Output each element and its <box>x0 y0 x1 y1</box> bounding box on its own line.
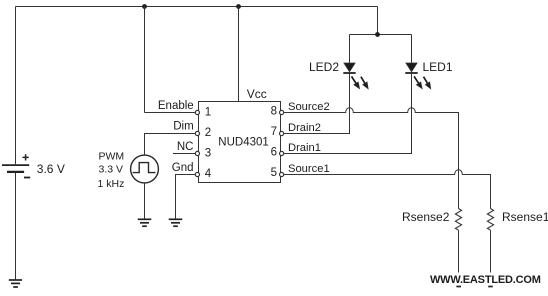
wire Rsense2 to ground <box>458 230 460 278</box>
svg-text:Enable: Enable <box>158 100 194 112</box>
wire Rsense1 to ground <box>490 230 492 278</box>
label 3.6 V <box>37 162 65 176</box>
resistor Rsense1 <box>487 209 493 231</box>
label LED2 <box>309 60 339 74</box>
label Source2 <box>288 101 330 113</box>
pin number 1 <box>205 107 211 119</box>
svg-text:NC: NC <box>177 141 194 153</box>
LED D1 <box>405 63 431 89</box>
svg-text:5: 5 <box>271 167 277 179</box>
svg-text:WWW.EASTLED.COM: WWW.EASTLED.COM <box>430 274 541 286</box>
svg-text:6: 6 <box>271 147 277 159</box>
wire vcc branch vertical <box>238 7 240 102</box>
label Gnd <box>172 162 194 174</box>
pin 3 circle <box>195 151 199 155</box>
svg-text:3.6 V: 3.6 V <box>37 162 65 176</box>
battery BT1 3.6V <box>2 154 30 177</box>
wire Gnd pin to ground <box>176 175 196 220</box>
wire battery to ground <box>15 173 17 280</box>
label Drain2 <box>288 122 321 134</box>
svg-text:1 kHz: 1 kHz <box>98 178 125 190</box>
label Drain1 <box>288 142 321 154</box>
svg-text:3.3 V: 3.3 V <box>99 164 124 176</box>
wire enable branch vertical <box>144 7 146 113</box>
pin number 6 <box>271 147 277 159</box>
pin number 5 <box>271 167 277 179</box>
pin number 7 <box>271 126 277 138</box>
svg-text:3: 3 <box>205 148 211 160</box>
svg-text:4: 4 <box>205 168 212 180</box>
wire Source1 pin5 with hop to Rsense1 <box>284 170 491 209</box>
pulse waveform symbol <box>133 163 156 173</box>
source V1 PWM circle <box>131 155 159 183</box>
pin 7 circle <box>280 131 284 135</box>
label Enable <box>158 100 194 112</box>
wire Source2 pin8 with hops to Rsense2 <box>284 108 459 209</box>
pin 2 circle <box>195 131 199 135</box>
pin 6 circle <box>280 151 284 155</box>
pin number 3 <box>205 148 211 160</box>
label Source1 <box>288 163 330 175</box>
svg-text:Source1: Source1 <box>288 163 330 175</box>
svg-text:8: 8 <box>271 106 277 118</box>
svg-text:Rsense2: Rsense2 <box>402 210 450 224</box>
label Vcc <box>247 87 267 101</box>
svg-text:NUD4301: NUD4301 <box>218 137 268 149</box>
wire enable to pin1 <box>145 112 196 114</box>
svg-text:PWM: PWM <box>99 150 125 162</box>
svg-text:Rsense1: Rsense1 <box>502 210 548 224</box>
label Rsense2 <box>402 210 450 224</box>
label Rsense1 <box>502 210 548 224</box>
wire Dim to PWM source <box>145 134 196 156</box>
wire top rail corner down to LED rail <box>377 7 379 35</box>
pin number 8 <box>271 106 277 118</box>
label NUD4301 <box>218 137 268 149</box>
LED D2 <box>343 63 368 89</box>
ground PWM <box>138 219 152 226</box>
svg-text:Source2: Source2 <box>288 101 330 113</box>
svg-text:Drain1: Drain1 <box>288 142 321 154</box>
wire PWM to ground <box>144 183 146 219</box>
svg-text:Dim: Dim <box>173 121 193 133</box>
svg-text:1: 1 <box>205 107 211 119</box>
ground Rsense1 <box>484 279 497 287</box>
svg-text:Drain2: Drain2 <box>288 122 321 134</box>
node junction dot LED rail <box>375 32 380 37</box>
label WWW.EASTLED.COM <box>428 273 544 287</box>
label PWM 3.3V 1kHz <box>98 150 125 189</box>
label LED1 <box>423 60 453 74</box>
ground battery <box>9 280 22 287</box>
svg-text:Vcc: Vcc <box>247 87 267 101</box>
pin number 2 <box>205 127 211 139</box>
op IC U1 NUD4301 body <box>199 102 281 183</box>
wire LED anode rail <box>350 34 412 36</box>
pin number 4 <box>205 168 212 180</box>
wire left battery feed <box>15 7 17 165</box>
svg-text:Gnd: Gnd <box>172 162 194 174</box>
svg-text:LED2: LED2 <box>309 60 339 74</box>
svg-text:7: 7 <box>271 126 277 138</box>
label NC <box>177 141 194 153</box>
ground Rsense2 <box>452 279 465 287</box>
node junction dot vcc branch <box>236 4 241 9</box>
wire LED2 cathode to Drain2 <box>284 73 350 134</box>
label Dim <box>173 121 193 133</box>
svg-text:LED1: LED1 <box>423 60 453 74</box>
pin 1 circle <box>195 110 199 114</box>
wire NC stub <box>173 153 195 155</box>
pin 8 circle <box>280 110 284 114</box>
wire top supply rail <box>16 6 378 8</box>
wire LED1 anode <box>411 35 413 64</box>
node junction dot enable branch <box>142 4 147 9</box>
svg-text:2: 2 <box>205 127 211 139</box>
pin 4 circle <box>195 172 199 176</box>
wire LED1 cathode to Drain1 <box>284 73 412 154</box>
pin 5 circle <box>280 172 284 176</box>
ground IC gnd <box>169 219 183 226</box>
wire LED2 anode <box>349 35 351 64</box>
resistor Rsense2 <box>455 209 461 231</box>
